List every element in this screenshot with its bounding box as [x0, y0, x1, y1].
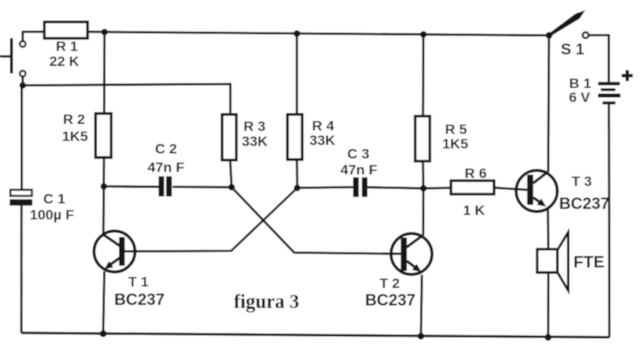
node T1 bottom junction — [100, 330, 107, 337]
wire S1 node to T3 collector — [547, 35, 550, 171]
resistor R4 — [287, 114, 302, 159]
node T2 bottom junction — [418, 333, 425, 340]
svg-text:BC237: BC237 — [365, 291, 415, 309]
svg-text:R 3: R 3 — [243, 119, 265, 135]
node D junction — [294, 185, 301, 192]
node B junction — [101, 183, 108, 190]
wire battery to bottom right corner — [608, 104, 611, 337]
capacitor C3 — [353, 177, 359, 197]
capacitor C1 — [10, 190, 32, 196]
wire T1 emitter to bottom rail — [103, 271, 104, 333]
svg-text:R 5: R 5 — [445, 122, 467, 138]
transistor T3 — [516, 170, 557, 211]
wire node B to T1 collector — [102, 186, 105, 234]
node top A junction — [101, 29, 108, 36]
svg-text:C 3: C 3 — [347, 147, 369, 163]
wire R4 to node D — [296, 160, 299, 188]
svg-text:C 1: C 1 — [43, 191, 65, 207]
wire node D to C3 — [297, 186, 353, 189]
svg-text:BC237: BC237 — [559, 195, 609, 213]
node pushbutton C1 junction — [19, 82, 26, 89]
node speaker bottom junction — [545, 334, 552, 341]
svg-text:1K5: 1K5 — [442, 137, 468, 153]
wire C2 to node C — [173, 186, 232, 189]
svg-text:R 4: R 4 — [312, 118, 334, 134]
svg-text:33K: 33K — [309, 133, 336, 149]
svg-text:T 1: T 1 — [128, 273, 148, 289]
wire R3 to node C — [230, 160, 231, 187]
svg-text:figura 3: figura 3 — [234, 292, 300, 313]
svg-text:T 3: T 3 — [572, 173, 592, 189]
wire node to C1 — [21, 85, 23, 190]
wire R5 to node E — [422, 161, 425, 188]
svg-text:S 1: S 1 — [561, 41, 585, 58]
svg-text:T 2: T 2 — [380, 275, 400, 291]
node E junction — [420, 185, 427, 192]
wire cross coupling C to T2 — [232, 187, 401, 254]
resistor R5 — [415, 116, 430, 161]
svg-text:R 6: R 6 — [465, 166, 487, 182]
capacitor C2 — [159, 176, 165, 196]
resistor R1 — [44, 22, 87, 38]
wire R6 to T3 base — [494, 188, 527, 190]
node top rail S1 junction — [546, 32, 553, 39]
wire node E to R6 — [423, 187, 451, 190]
svg-text:R 2: R 2 — [63, 112, 85, 128]
speaker FTE — [537, 232, 568, 290]
transistor T1 — [94, 231, 135, 272]
wire S1 to battery — [589, 35, 609, 82]
svg-text:47n F: 47n F — [340, 162, 377, 178]
wire node B to C2 — [104, 185, 159, 188]
wire R2 to node B — [103, 158, 105, 187]
svg-text:1K5: 1K5 — [62, 129, 88, 145]
wire node A down to R2 — [103, 32, 106, 114]
resistor R3 — [222, 114, 236, 160]
wire bottom rail — [21, 333, 609, 337]
svg-text:47n F: 47n F — [147, 160, 184, 176]
wire second rail to R3 — [23, 84, 231, 114]
node C junction — [228, 184, 235, 191]
svg-text:100µ F: 100µ F — [30, 207, 75, 223]
resistor R6 — [451, 181, 494, 195]
wire top rail — [87, 32, 549, 36]
svg-text:BC237: BC237 — [114, 291, 164, 309]
svg-text:C 2: C 2 — [155, 142, 177, 158]
node top rail R5 junction — [420, 31, 427, 38]
svg-text:22 K: 22 K — [49, 54, 80, 70]
switch S1 — [548, 10, 588, 38]
wire T2 emitter to bottom rail — [421, 275, 422, 336]
node top rail R4 junction — [294, 30, 301, 37]
svg-text:R 1: R 1 — [56, 39, 78, 55]
wire C1 to bottom rail — [20, 206, 22, 333]
wire pushbutton top to R1 — [23, 32, 44, 41]
wire cross coupling D to T1 — [125, 188, 298, 252]
wire node E to T2 collector — [422, 188, 424, 235]
wire speaker to bottom rail — [547, 273, 550, 338]
battery plus sign — [622, 70, 633, 81]
wire T3 emitter to speaker — [547, 209, 550, 250]
battery B1 — [598, 82, 621, 105]
svg-text:33K: 33K — [242, 134, 269, 150]
wire pushbutton bottom to node — [22, 76, 24, 85]
wire R4 drop — [296, 34, 298, 115]
wire C3 to node E — [367, 187, 423, 188]
pushbutton SW1 — [0, 38, 26, 76]
svg-text:1 K: 1 K — [463, 203, 486, 219]
wire R5 drop — [422, 34, 425, 116]
svg-text:6 V: 6 V — [569, 90, 591, 106]
transistor T2 — [391, 234, 432, 275]
svg-text:FTE: FTE — [573, 254, 604, 272]
resistor R2 — [96, 114, 112, 158]
